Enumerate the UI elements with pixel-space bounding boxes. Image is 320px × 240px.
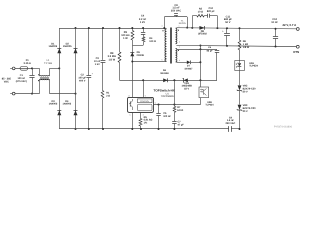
svg-text:6.8 Ω: 6.8 Ω [177, 109, 183, 112]
svg-text:1 kV: 1 kV [140, 21, 145, 24]
svg-text:5: 5 [162, 58, 163, 61]
svg-text:820 pF: 820 pF [207, 10, 215, 13]
svg-text:100 Ω: 100 Ω [149, 40, 156, 43]
svg-text:3.15 A: 3.15 A [24, 62, 31, 65]
svg-text:250 VAC: 250 VAC [226, 122, 236, 125]
svg-text:47 µF: 47 µF [178, 123, 185, 126]
svg-text:U2B: U2B [207, 101, 212, 104]
svg-text:2: 2 [179, 40, 180, 43]
svg-text:82 µF: 82 µF [207, 50, 214, 53]
svg-text:18 V: 18 V [184, 87, 189, 90]
svg-text:1N4937: 1N4937 [184, 67, 193, 70]
svg-text:2 Ω: 2 Ω [106, 94, 110, 97]
svg-text:UF5402: UF5402 [198, 33, 208, 36]
svg-text:10 Ω: 10 Ω [198, 10, 203, 13]
svg-text:250 VAC: 250 VAC [171, 9, 181, 12]
svg-text:1/8 W: 1/8 W [243, 46, 250, 49]
svg-text:1N4005: 1N4005 [49, 103, 58, 106]
svg-text:20 V: 20 V [243, 110, 248, 113]
svg-text:4: 4 [179, 46, 180, 49]
svg-text:(275 VAC): (275 VAC) [16, 80, 27, 83]
svg-text:TOP258MN: TOP258MN [161, 95, 174, 98]
svg-text:RTN: RTN [293, 50, 299, 54]
svg-text:FR106: FR106 [137, 54, 145, 57]
svg-text:PI-5474-061806: PI-5474-061806 [274, 126, 293, 129]
svg-text:1N4005: 1N4005 [63, 45, 72, 48]
svg-text:TOPSwitch-HX: TOPSwitch-HX [154, 89, 175, 93]
svg-text:1 kV: 1 kV [95, 63, 100, 66]
svg-text:7.2 mH: 7.2 mH [44, 62, 52, 65]
svg-text:TLP624: TLP624 [205, 104, 214, 107]
svg-text:EEP25: EEP25 [179, 22, 187, 25]
svg-text:1: 1 [179, 24, 180, 27]
svg-text:CONTROL: CONTROL [140, 100, 149, 103]
svg-text:1N4005: 1N4005 [63, 103, 72, 106]
svg-text:400 V: 400 V [79, 79, 86, 82]
svg-text:1 W: 1 W [123, 37, 128, 40]
svg-text:1N4005: 1N4005 [49, 45, 58, 48]
svg-text:50 V: 50 V [225, 21, 231, 24]
svg-text:VAC: VAC [4, 81, 9, 84]
svg-text:3: 3 [162, 25, 163, 28]
svg-text:6: 6 [179, 59, 180, 62]
svg-text:1N4148: 1N4148 [160, 72, 169, 75]
svg-text:20 V: 20 V [243, 90, 248, 93]
svg-text:1/2 W: 1/2 W [109, 58, 116, 61]
svg-text:42 V, 0.7 A: 42 V, 0.7 A [282, 23, 296, 27]
svg-text:100 nF: 100 nF [163, 115, 171, 118]
svg-text:TLP624: TLP624 [249, 65, 258, 68]
svg-text:10 nF: 10 nF [271, 21, 278, 24]
